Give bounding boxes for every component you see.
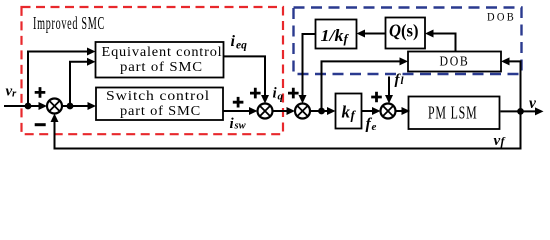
svg-text:v: v (494, 133, 501, 149)
label vr (6, 84, 18, 100)
summing junction S2 (258, 104, 273, 119)
wire S2 to S3 (273, 107, 296, 115)
wire Qs to 1/kf (357, 30, 386, 38)
wire ieq from Equivalent block to S2 (224, 56, 270, 103)
wire DOB to Qs (425, 30, 456, 52)
svg-text:Q(s): Q(s) (389, 21, 419, 42)
sign minus S1 (35, 123, 46, 126)
sign plus S2 vertical (250, 88, 261, 99)
block Equivalent control part of SMC (96, 42, 224, 78)
dashed box DOB observer (294, 8, 522, 75)
summing junction S4 (381, 104, 396, 119)
block Q(s) (386, 18, 426, 49)
wire Switch block to S2 (223, 107, 258, 115)
node iq branch to DOB (318, 108, 325, 115)
wire error to Equivalent block lower input (70, 58, 96, 106)
wire vr to Equivalent block upper input (28, 48, 96, 107)
wire vr input (4, 102, 47, 110)
block Switch control part of SMC (96, 88, 223, 121)
svg-text:DOB: DOB (440, 55, 470, 70)
wire S1 to Switch block (62, 102, 96, 110)
svg-text:Switch control: Switch control (106, 89, 210, 104)
label DOB (corner) (487, 10, 516, 24)
wire iq branch up to DOB input (322, 57, 409, 111)
svg-text:part of SMC: part of SMC (120, 104, 201, 119)
node branch vr (25, 103, 32, 110)
svg-text:r: r (12, 88, 17, 100)
svg-text:k: k (342, 103, 351, 122)
sign plus S3 vertical (288, 88, 299, 99)
node v branch (517, 108, 524, 115)
svg-text:q: q (278, 91, 284, 103)
svg-text:1/k: 1/k (321, 26, 345, 45)
wire S3 to kf (310, 107, 336, 115)
sign plus S1 (35, 87, 46, 98)
label fl (395, 72, 405, 88)
summing junction S3 (295, 104, 310, 119)
wire PMLSM output v (501, 107, 544, 115)
label fe (366, 116, 377, 134)
label isw (230, 116, 247, 132)
sign plus S2 horizontal (233, 97, 244, 108)
svg-text:v: v (529, 95, 537, 112)
svg-text:e: e (372, 121, 377, 133)
svg-text:eq: eq (236, 40, 247, 52)
label v output (529, 95, 537, 112)
sign plus S4 (371, 92, 382, 103)
label vf (494, 133, 506, 149)
label Improved SMC (33, 13, 105, 33)
svg-text:part of SMC: part of SMC (120, 60, 203, 75)
block DOB (408, 52, 501, 72)
summing junction S1 (47, 99, 62, 114)
svg-text:PM LSM: PM LSM (428, 103, 478, 123)
block kf (336, 94, 362, 129)
svg-text:DOB: DOB (487, 10, 516, 24)
block PMLSM (409, 97, 500, 130)
svg-text:i: i (231, 33, 236, 50)
block 1/kf (316, 20, 357, 49)
wire kf to S4 (362, 107, 381, 115)
wire fl disturbance into S4 (385, 77, 393, 104)
wire S4 to PMLSM (396, 107, 411, 115)
wire 1/kf output to S3 (299, 34, 316, 104)
wire v up to DOB right input (501, 57, 521, 111)
wire v feedback to S1 (51, 111, 521, 148)
svg-text:Equivalent control: Equivalent control (102, 45, 223, 60)
dashed box Improved SMC (22, 7, 284, 134)
label ieq (231, 33, 248, 52)
label iq (273, 86, 284, 103)
svg-text:Improved SMC: Improved SMC (33, 13, 105, 33)
node error branch (67, 103, 74, 110)
svg-text:sw: sw (234, 121, 247, 132)
